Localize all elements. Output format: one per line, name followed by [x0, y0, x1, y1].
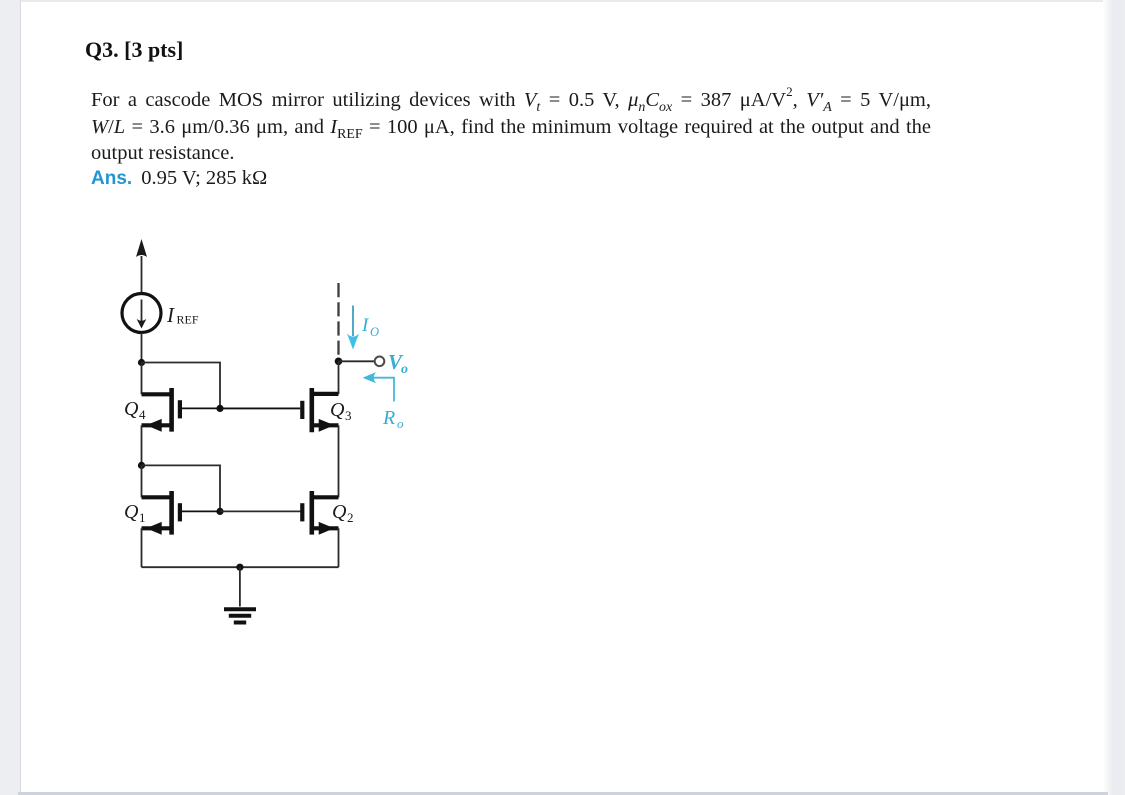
gate junction 2 dot — [216, 508, 223, 515]
svg-text:Q: Q — [332, 501, 347, 523]
svg-text:o: o — [397, 416, 404, 431]
arrow Ro blue — [363, 372, 395, 401]
gate junction 1 dot — [216, 405, 223, 412]
wire: node A to gate junction 1 — [142, 363, 221, 409]
svg-text:Q: Q — [124, 501, 139, 523]
label Io — [361, 315, 379, 339]
svg-text:Q: Q — [124, 398, 139, 420]
ground junction dot — [236, 564, 243, 571]
transistor Q3 — [220, 388, 339, 432]
wire: node B to gate junction 2 — [142, 465, 221, 511]
label Ro — [382, 407, 404, 431]
wire top rail — [141, 256, 143, 293]
svg-text:R: R — [382, 407, 395, 429]
wire: output node to terminal — [339, 360, 375, 362]
label Q3 — [330, 399, 352, 423]
output node dot — [335, 358, 343, 366]
svg-text:I: I — [361, 315, 370, 336]
arrow Io blue — [347, 306, 359, 350]
transistor Q1 — [142, 491, 221, 535]
svg-text:4: 4 — [139, 407, 146, 422]
current source IREF — [122, 294, 161, 333]
label Q1 — [124, 501, 146, 525]
node A dot — [138, 359, 145, 366]
wire: Q4 source to node B — [141, 425, 143, 465]
arrow up top — [136, 239, 147, 257]
wire bottom rail — [142, 566, 339, 568]
node B dot — [138, 462, 145, 469]
output terminal circle — [375, 357, 385, 367]
label Vo — [388, 350, 408, 377]
svg-text:Q: Q — [330, 399, 345, 421]
wire: output node down to Q3 drain — [338, 361, 340, 394]
wire: gate junction 2 to Q2 gate — [220, 510, 302, 512]
label Q2 — [332, 501, 354, 525]
svg-text:2: 2 — [347, 510, 354, 525]
svg-text:3: 3 — [345, 408, 352, 423]
ground — [224, 609, 256, 622]
svg-text:O: O — [370, 325, 379, 339]
transistor Q4 — [142, 388, 221, 432]
label Q4 — [124, 398, 146, 422]
wire: Q3 source down to Q2 drain — [338, 425, 340, 497]
svg-text:1: 1 — [139, 510, 146, 525]
svg-text:REF: REF — [177, 313, 199, 327]
svg-text:I: I — [166, 303, 175, 327]
dashed line output branch — [337, 283, 339, 357]
svg-text:o: o — [401, 362, 408, 377]
wire: node A down to Q4 drain — [141, 363, 143, 395]
wire: Q2 source down to bottom rail — [338, 528, 340, 567]
wire: current source to node A — [141, 333, 143, 363]
transistor Q2 — [302, 491, 338, 535]
wire: junction to ground — [239, 567, 241, 606]
wire: gate junction 1 to Q3 gate — [220, 407, 300, 409]
label IREF — [166, 303, 199, 327]
wire: node B down to Q1 drain — [141, 465, 143, 497]
wire: Q1 source to bottom rail — [141, 528, 143, 567]
